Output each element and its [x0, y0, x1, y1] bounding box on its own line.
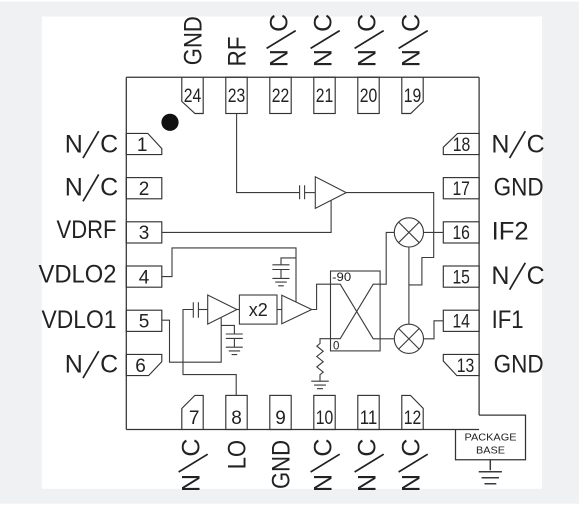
svg-text:N: N: [397, 49, 425, 67]
svg-text:C: C: [353, 14, 381, 32]
svg-text:2: 2: [139, 179, 150, 200]
svg-text:12: 12: [404, 408, 422, 429]
svg-text:N: N: [491, 262, 509, 290]
svg-text:5: 5: [139, 312, 150, 333]
svg-text:21: 21: [316, 86, 334, 107]
svg-text:10: 10: [316, 408, 334, 429]
svg-text:IF2: IF2: [492, 218, 529, 246]
svg-text:N: N: [309, 49, 337, 67]
svg-text:19: 19: [404, 86, 422, 107]
svg-text:C: C: [527, 262, 545, 290]
svg-text:C: C: [100, 174, 118, 202]
svg-text:11: 11: [360, 408, 378, 429]
svg-text:7: 7: [189, 408, 200, 429]
svg-text:23: 23: [228, 86, 246, 107]
svg-text:BASE: BASE: [476, 445, 505, 456]
svg-text:RF: RF: [223, 37, 251, 67]
svg-text:14: 14: [452, 312, 470, 333]
svg-text:20: 20: [360, 86, 378, 107]
svg-text:C: C: [309, 14, 337, 32]
svg-text:LO: LO: [223, 440, 251, 469]
svg-text:13: 13: [457, 356, 475, 377]
svg-text:18: 18: [453, 135, 471, 156]
svg-text:16: 16: [452, 223, 470, 244]
svg-text:9: 9: [275, 408, 286, 429]
svg-text:C: C: [265, 14, 293, 32]
svg-text:VDLO2: VDLO2: [39, 260, 117, 288]
svg-text:x2: x2: [249, 300, 268, 320]
svg-text:PACKAGE: PACKAGE: [465, 433, 517, 444]
svg-text:-90: -90: [332, 272, 351, 284]
svg-text:GND: GND: [494, 174, 544, 202]
svg-text:IF1: IF1: [492, 306, 524, 334]
svg-text:C: C: [100, 130, 118, 158]
svg-text:1: 1: [137, 135, 148, 156]
svg-text:N: N: [353, 49, 381, 67]
svg-text:GND: GND: [494, 350, 544, 378]
svg-text:15: 15: [452, 267, 470, 288]
svg-text:C: C: [177, 439, 205, 457]
svg-text:3: 3: [139, 223, 150, 244]
svg-text:24: 24: [184, 86, 202, 107]
svg-text:22: 22: [272, 86, 290, 107]
svg-text:C: C: [397, 439, 425, 457]
svg-text:N: N: [397, 474, 425, 492]
svg-text:17: 17: [452, 179, 470, 200]
svg-text:C: C: [353, 439, 381, 457]
svg-text:N: N: [65, 130, 83, 158]
svg-text:VDRF: VDRF: [57, 216, 117, 244]
svg-text:0: 0: [333, 341, 339, 353]
svg-text:C: C: [309, 439, 337, 457]
svg-text:N: N: [265, 49, 293, 67]
svg-text:N: N: [65, 350, 83, 378]
svg-text:6: 6: [135, 356, 146, 377]
svg-text:VDLO1: VDLO1: [42, 306, 117, 334]
svg-text:GND: GND: [179, 16, 207, 65]
svg-text:N: N: [309, 474, 337, 492]
svg-text:C: C: [397, 14, 425, 32]
svg-text:N: N: [65, 174, 83, 202]
svg-text:GND: GND: [267, 440, 295, 489]
svg-text:N: N: [491, 130, 509, 158]
svg-text:4: 4: [139, 267, 150, 288]
svg-text:N: N: [177, 474, 205, 492]
svg-text:8: 8: [231, 408, 242, 429]
svg-text:N: N: [353, 474, 381, 492]
svg-text:C: C: [527, 130, 545, 158]
svg-text:C: C: [100, 350, 118, 378]
